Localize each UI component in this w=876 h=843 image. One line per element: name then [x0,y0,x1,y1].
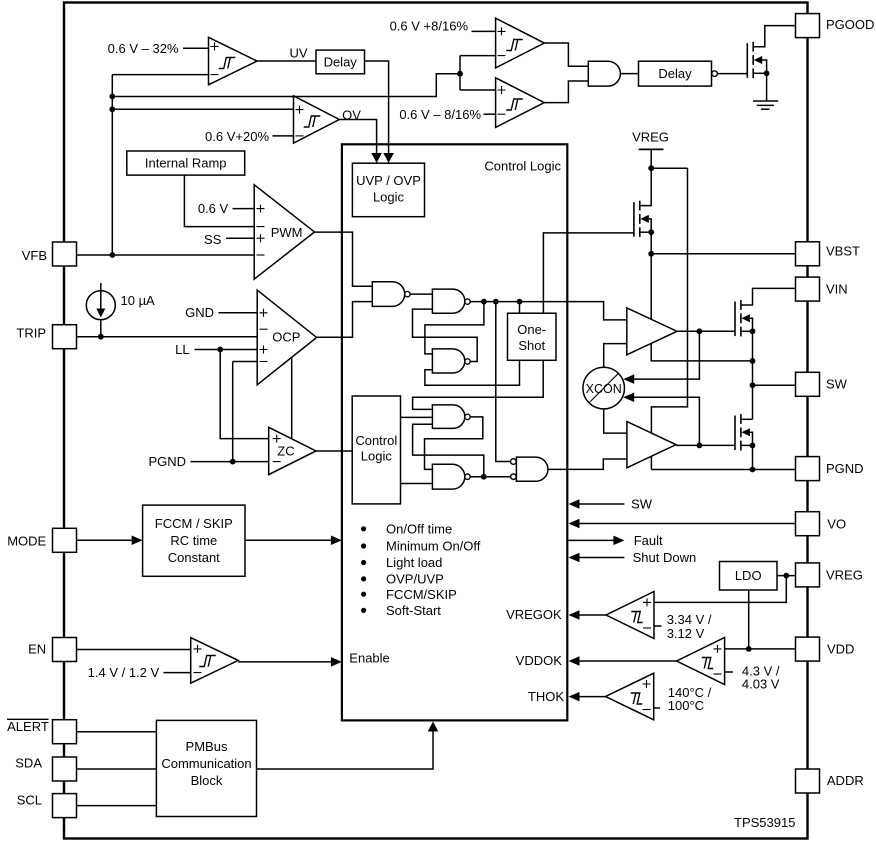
wire high fet source [741,330,753,332]
node B out long drop junction [493,299,499,305]
svg-text:Internal Ramp: Internal Ramp [145,156,227,171]
wire comparator A plus input [472,30,496,32]
wire VREGOK minus stub [654,625,662,627]
svg-text:PGND: PGND [826,461,864,476]
svg-text:VREG: VREG [826,568,863,583]
node upper driver output junction [697,328,703,334]
wire phase node vertical [752,331,754,419]
gate NAND D latch2 [432,405,464,429]
wire NAND B output line to driver [470,302,627,320]
comparator ZC [269,427,316,474]
wire PWM plus input [233,208,255,210]
wire delay to pgood fet gate [717,73,747,75]
svg-text:PWM: PWM [271,225,303,240]
wire feedback between top comparator inputs [459,56,461,90]
pin MODE [53,528,77,552]
svg-text:Shut Down: Shut Down [633,550,697,565]
svg-text:RC time: RC time [170,533,217,548]
wire gate F output to lower driver [548,459,627,469]
wire LL to ZC plus input [220,350,269,439]
gate NAND E latch2 [432,464,464,489]
node feedback-OV junction [109,106,115,112]
wire NAND E output to gate F [470,476,511,478]
svg-text:PGND: PGND [148,454,186,469]
wire NAND C output to NAND B input [413,309,478,361]
block Internal Ramp [127,151,245,175]
wire SW to pin [753,384,796,386]
node B out one-shot junction [517,299,523,305]
svg-text:1.4 V / 1.2 V: 1.4 V / 1.2 V [88,665,160,680]
wire one-shot output to NAND D [413,360,544,409]
pin PGOOD [796,14,820,38]
svg-text:3.34 V /: 3.34 V / [667,612,712,627]
pin VDD [796,637,820,661]
wire pgood fet source [753,72,766,74]
inverter bubble on delay output [712,71,718,77]
wire OCP plus input (GND) [219,312,258,314]
svg-text:VFB: VFB [22,248,47,263]
wire internal ramp to PWM ramp input [184,175,254,227]
wire UV output to delay [257,60,316,62]
svg-text:On/Off time: On/Off time [386,521,452,536]
gate NAND C latch [432,349,464,373]
svg-text:Communication: Communication [161,756,251,771]
wire SW sense arrow into control logic [578,503,624,505]
wire one-shot output to NAND C [425,360,520,385]
wire VREG to VREGOK comparator [654,576,786,603]
svg-text:100°C: 100°C [668,698,704,713]
wire comparator B minus input [484,113,496,115]
svg-text:ADDR: ADDR [827,773,864,788]
wire ALERT to PMBus [77,731,156,733]
wire pgood fet source to ground [766,73,768,101]
block Control Logic main box [342,144,567,720]
wire low fet drain [741,418,753,420]
comparator EN [191,638,239,684]
svg-text:VREGOK: VREGOK [506,607,562,622]
comparator PGOOD-low [496,78,545,128]
wire UV plus input [183,47,209,49]
svg-text:SW: SW [826,377,848,392]
svg-text:0.6 V +8/16%: 0.6 V +8/16% [390,18,469,33]
svg-text:EN: EN [28,642,46,657]
node LDO output junction [783,573,789,579]
wire one-shot input stub [519,302,521,314]
block UVP/OVP Logic [352,163,424,217]
circle XCON [583,367,625,409]
wire AND to Delay [620,73,638,75]
wire OV minus input [273,135,294,137]
node vreg fet source junction [648,229,654,235]
wire source to VBST node [650,232,652,254]
node VREG junction [648,165,654,171]
wire XCON to lower driver [604,409,628,433]
wire comparator A to AND gate [544,43,588,66]
svg-text:TRIP: TRIP [16,326,46,341]
wire high fet body tie [744,318,753,331]
pin VBST [796,242,820,266]
wire EN comparator minus input [164,672,191,674]
ground symbol [753,100,778,102]
wire SCL to PMBus [77,805,156,807]
svg-text:0.6 V: 0.6 V [198,201,229,216]
node SW pin junction [750,382,756,388]
current source 10uA [100,283,102,292]
wire VFB feedback vertical [111,75,113,255]
wire THOK output with arrow [578,696,606,698]
svg-text:Control Logic: Control Logic [484,159,561,174]
wire low fet source [741,444,753,446]
wire PGND rail [651,469,795,471]
wire pgood fet body-source tie [756,60,767,73]
svg-text:LDO: LDO [735,568,762,583]
wire Fault output with arrow [567,539,614,541]
pin VFB [53,242,77,266]
svg-text:SS: SS [204,232,222,247]
svg-text:TPS53915: TPS53915 [734,815,795,830]
svg-text:Logic: Logic [361,449,393,464]
wire OCP output into control logic [317,302,373,338]
svg-text:Minimum On/Off: Minimum On/Off [386,539,481,554]
svg-text:VBST: VBST [826,244,860,259]
wire lower driver output to XCON input 2 with arrow [634,397,699,445]
wire VREG to lower-driver rail branch [651,167,687,169]
node VFB junction [109,252,115,258]
svg-text:PGOOD: PGOOD [826,17,874,32]
wire low fet source to PGND rail [752,445,754,469]
svg-text:FCCM/SKIP: FCCM/SKIP [386,587,457,602]
wire MODE to FCCM block with arrow [77,539,133,541]
gate AND pgood [588,61,620,86]
svg-text:0.6 V – 8/16%: 0.6 V – 8/16% [399,107,481,122]
svg-text:Logic: Logic [373,190,405,205]
svg-text:4.03 V: 4.03 V [742,676,780,691]
svg-text:FCCM / SKIP: FCCM / SKIP [155,516,233,531]
wire VBST rail behind upper driver [651,254,752,361]
block One-Shot [508,313,557,360]
pin VREG [796,563,820,587]
wire OCP LL input [195,349,258,351]
svg-text:VREG: VREG [632,130,669,145]
svg-text:UVP / OVP: UVP / OVP [356,173,421,188]
node lower driver output junction [697,443,703,449]
transistor PGOOD N-FET [746,43,748,78]
svg-text:GND: GND [185,305,214,320]
gate NAND B latch [432,289,464,313]
wire VFB net to PWM minus input [77,254,254,256]
comparator OCP [257,290,316,385]
svg-text:XCON: XCON [586,382,622,396]
comparator VDDOK [677,638,725,685]
wire pgood fet drain to PGOOD pin [753,26,795,47]
svg-text:PMBus: PMBus [186,739,228,754]
svg-text:SCL: SCL [17,793,42,808]
pin EN [53,638,77,662]
svg-text:Constant: Constant [168,550,220,565]
wire vreg fet gate from one-shot [543,233,634,313]
node feedback top-comparator junction [457,71,463,77]
node PGND-OCP junction [230,459,236,465]
svg-text:VDDOK: VDDOK [516,653,563,668]
comparator VREGOK [606,592,654,639]
svg-text:OVP/UVP: OVP/UVP [386,572,444,587]
svg-text:MODE: MODE [7,534,46,549]
wire VREGOK output with arrow [578,614,606,616]
svg-text:Light load: Light load [386,555,442,570]
node SW rail junction [750,358,756,364]
svg-text:10 µA: 10 µA [121,293,156,308]
svg-text:0.6 V – 32%: 0.6 V – 32% [108,41,179,56]
node E output junction [481,474,487,480]
pin SDA [53,757,77,781]
comparator PWM [254,185,314,280]
bullet list features [361,526,366,531]
wire LDO supply from VDD [748,590,750,649]
node high fet source junction [750,328,756,334]
block LDO [720,562,778,591]
wire FCCM to control logic with arrow [245,539,333,541]
wire driver output to XCON input 1 with arrow [634,331,699,379]
svg-text:THOK: THOK [528,689,564,704]
svg-text:OCP: OCP [272,330,300,345]
svg-text:ZC: ZC [277,444,294,459]
wire EN comparator to Enable with arrow [238,661,332,663]
wire PGND to ZC minus [191,461,269,463]
wire comparator B to AND gate [544,81,588,103]
node VDD-LDO junction [746,646,752,652]
transistor VREG N-FET [633,202,635,237]
svg-text:3.12 V: 3.12 V [667,626,705,641]
svg-text:SDA: SDA [15,756,42,771]
svg-text:VDD: VDD [827,642,854,657]
wire Shut Down with arrow [578,557,624,559]
wire vreg fet body tie [643,219,651,232]
svg-text:Block: Block [191,773,223,788]
node PGND rail junction [750,467,756,473]
pin PGND [796,457,820,481]
block Delay (UV) [316,50,365,74]
node B out to C junction [481,299,487,305]
svg-text:VO: VO [827,516,846,531]
svg-text:SW: SW [631,497,653,512]
svg-text:One-: One- [517,322,546,337]
wire NAND E input from inner box [401,483,433,485]
pin ALERT (active low) [53,720,77,744]
block PMBus Communication [156,720,256,816]
comparator UV [209,37,258,85]
svg-text:Enable: Enable [349,651,389,666]
driver lower [627,422,676,468]
wire EN to comparator [77,649,190,651]
wire B out long drop to gate F [496,302,511,462]
wire VDDOK output with arrow [578,660,677,662]
pin VO [796,512,820,536]
wire SDA to PMBus [77,768,156,770]
wire VDD to VDDOK comparator [725,648,796,650]
wire PMBus to control logic with up arrow [257,729,434,769]
wire high fet drain to VIN [741,288,796,305]
wire NAND E output to NAND D input [413,424,484,476]
wire OCP-to-ZC vertical behind comparators [291,352,293,443]
wire OCP pgnd input [233,361,258,363]
svg-text:Soft-Start: Soft-Start [386,603,441,618]
wire ZC output into control logic [316,450,352,452]
wire LDO to VREG pin [777,575,796,577]
wire TRIP net to OCP minus [77,336,257,338]
block FCCM/SKIP RC time Constant [143,505,245,576]
svg-text:VIN: VIN [826,282,848,297]
comparator OV [294,96,340,143]
wire feedback to top comparators with jog [112,74,460,97]
wire VDDOK minus stub [725,671,733,673]
wire NAND D input from inner box [401,416,433,418]
wire PWM soft-start input [226,237,254,239]
comparator PGOOD-high [496,18,545,68]
svg-text:0.6 V+20%: 0.6 V+20% [205,129,269,144]
svg-text:Fault: Fault [634,533,663,548]
node pgood fet source junction [764,70,770,76]
wire vreg fet drain [640,168,651,205]
wire VREG rail behind lower driver [651,168,687,469]
wire OV output to UVP/OVP logic with down arrow [339,120,376,156]
pin ADDR [796,769,820,793]
gate NAND A [372,282,404,307]
node low fet source junction [750,443,756,449]
wire VBST to pin [651,253,795,255]
wire PWM output into control logic [315,232,373,286]
pin SCL [53,794,77,818]
gate AND F inverted inputs [516,457,548,481]
wire NAND D output to NAND E input [425,417,483,470]
wire low fet body tie [744,432,753,445]
block inner Control Logic [352,396,400,504]
block Delay (PGOOD) [639,61,712,86]
node VBST junction [648,251,654,257]
wire XCON to upper driver [604,344,627,368]
transistor low-side N-FET [734,416,736,451]
wire Delay to UVP/OVP logic with down arrow [365,61,389,155]
pin SW [796,372,820,396]
wire OCP pgnd vertical [232,362,234,462]
pin VIN [796,277,820,301]
node TRIP junction [98,334,104,340]
svg-text:UV: UV [289,45,307,60]
wire OV plus input from feedback [112,108,293,110]
wire vreg fet source [640,231,651,233]
driver upper [627,308,677,355]
wire VO sense to control logic with arrow [578,523,796,525]
wire NAND A to NAND B [410,293,432,295]
transistor high-side N-FET [734,302,736,337]
svg-text:Control: Control [355,433,397,448]
svg-text:LL: LL [175,342,189,357]
svg-text:Delay: Delay [324,55,358,70]
svg-text:Delay: Delay [658,66,692,81]
wire UV minus input [112,74,208,76]
node feedback-UV junction [109,94,115,100]
wire upper driver output to high fet gate [677,330,735,332]
wire lower driver output to low fet gate [676,444,735,446]
wire B out to NAND C input [425,302,484,354]
node LL junction [217,347,223,353]
svg-text:Shot: Shot [518,338,545,353]
wire THOK minus stub [654,707,660,709]
svg-text:ALERT: ALERT [7,719,49,734]
comparator THOK [606,673,654,720]
pin TRIP [53,325,77,349]
